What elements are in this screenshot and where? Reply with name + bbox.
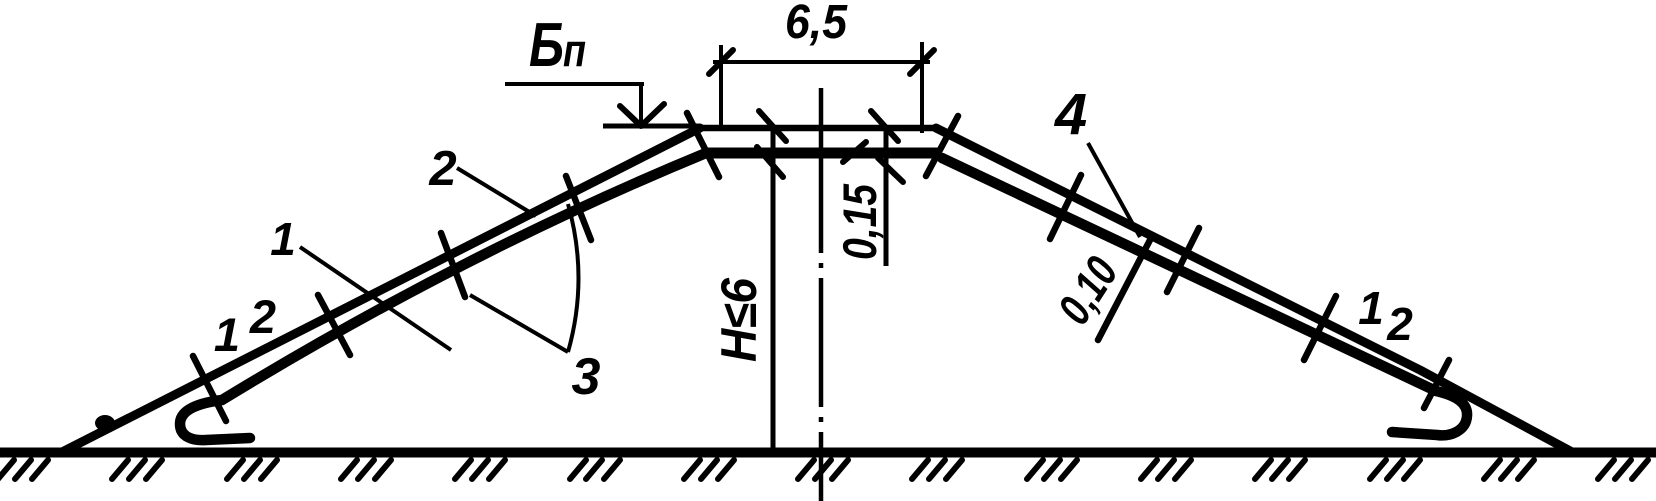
svg-text:0,15: 0,15 (833, 183, 886, 260)
svg-text:2: 2 (1386, 298, 1413, 350)
svg-text:1: 1 (270, 213, 296, 265)
svg-text:п: п (563, 24, 586, 76)
svg-text:1: 1 (1358, 282, 1384, 334)
svg-text:2: 2 (249, 290, 276, 343)
svg-text:4: 4 (1054, 82, 1087, 147)
svg-text:2: 2 (428, 142, 456, 196)
svg-text:Н≤6: Н≤6 (711, 277, 767, 362)
svg-text:3: 3 (572, 348, 601, 406)
svg-text:6,5: 6,5 (785, 0, 848, 49)
svg-text:1: 1 (214, 308, 240, 361)
svg-text:Б: Б (529, 11, 564, 80)
